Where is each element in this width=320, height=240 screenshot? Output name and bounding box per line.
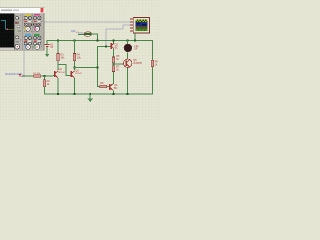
wire Q3 emitter down [113,49,114,57]
resistor R3 [57,54,65,61]
wire gray probe vertical to Q1 base node [24,51,25,77]
resistor R8 base of Q4 [100,82,107,88]
transistor Q1 [53,68,66,78]
node stack to Q5 base [113,63,115,65]
trigger column controls [15,16,21,49]
svg-text:BC: BC [115,46,119,49]
svg-text:R1 10k: R1 10k [33,73,41,75]
scope part bottom pin to rail [134,33,135,40]
speaker LS1 [124,44,139,52]
wire W1 gray scope lead to pin 2 [44,22,130,23]
title bar [0,8,44,13]
control panel [14,14,44,50]
transistor Q4 [107,84,118,91]
wire Q5 emitter down to rail [127,68,128,94]
node col B to y67 branch [74,66,76,68]
pin 2 [130,22,133,23]
pin 1 [130,19,133,20]
wire y86.5 corner to base resistor [97,86,100,87]
channel B panel [33,14,41,31]
wire Q2 emitter down [74,78,75,94]
wire x97.6 mid vertical [97,46,98,87]
resistor R4 [73,54,81,61]
node A rail junction x58 [57,39,59,41]
channel C panel [24,34,32,49]
node fuse at rail [97,39,99,41]
wire Q1 emitter down [58,78,59,94]
node B rail junction x74.5 [74,39,76,41]
svg-text:BC547: BC547 [75,73,82,75]
resistor R5 [112,55,120,63]
node x97.6 y67.3 [97,66,99,68]
wire right vertical [152,40,153,95]
node Q2 emitter at rail [74,93,76,95]
wire stack down to Q4 collector [113,72,114,85]
wire col B lower [74,61,75,70]
resistor R7 [112,66,120,72]
wire cross-coupling A to Q2 base [58,64,67,65]
transistor Q2 [71,69,83,78]
channel A panel [24,14,32,31]
wire branch down [44,76,45,80]
trace channel A [1,20,14,29]
wire col B upper [74,40,75,54]
wire speaker to Q5 [127,53,128,59]
node Q3 at rail [113,39,115,41]
pin 3 [130,25,133,26]
transistor Q5 power [124,59,143,67]
wire col A upper [58,40,59,54]
wire left drop to battery [47,40,48,44]
fuse F1 [78,32,97,37]
resistor R2 [43,80,50,87]
node Q4 emitter at rail [113,93,115,95]
svg-text:SP: SP [134,48,138,51]
pin 4 [130,28,133,29]
svg-text:BC547: BC547 [59,72,66,74]
screen [0,14,14,48]
channel D panel [33,34,41,49]
wire battery to ground [47,47,48,54]
window frame [0,7,44,50]
svg-text:BC: BC [114,87,118,90]
battery B1 [45,43,54,49]
wire top rail VCC [47,40,153,41]
node Q1 emitter at rail [57,93,59,95]
wire y46.3 horizontal to T3 base [97,46,108,47]
generator symbol [19,74,24,77]
close button [40,8,43,12]
wire W2 gray scope lead to pin 3 [106,29,107,47]
svg-text:Q1: Q1 [59,68,63,71]
wire R1 to Q1 base [41,76,53,77]
wire Q5 base horizontal [113,63,123,64]
wire col A lower to Q1 collector [58,61,59,70]
svg-text:2N3055: 2N3055 [133,62,142,65]
wire R2 to bottom rail [44,87,45,95]
wire y67.3 horizontal to x97.6 [74,67,98,68]
resistor R6 on right vertical [151,60,158,66]
node Q5 emitter at rail [127,93,129,95]
svg-text:9V: 9V [50,46,53,49]
wire generator to R1 [24,76,34,77]
oscilloscope part U1 top right [133,18,149,34]
node speaker chain at rail [127,39,129,41]
node gray meets green [105,46,107,48]
wire fuse drop to rail [97,34,98,41]
background [0,0,160,120]
wire Q4 emitter down [113,90,114,94]
ground 1 [45,54,49,57]
pin 5 [130,31,133,32]
ground 2 below bottom rail [87,93,93,102]
wire rail down to speaker [127,40,128,44]
wire bottom rail [44,94,153,95]
transistor Q3 pnp top right [108,43,118,50]
resistor R1 [33,73,41,77]
oscilloscope window [0,7,44,50]
node base branch [44,75,46,77]
wire Q3 collector up [113,40,114,43]
wire between stack resistors [113,63,114,66]
